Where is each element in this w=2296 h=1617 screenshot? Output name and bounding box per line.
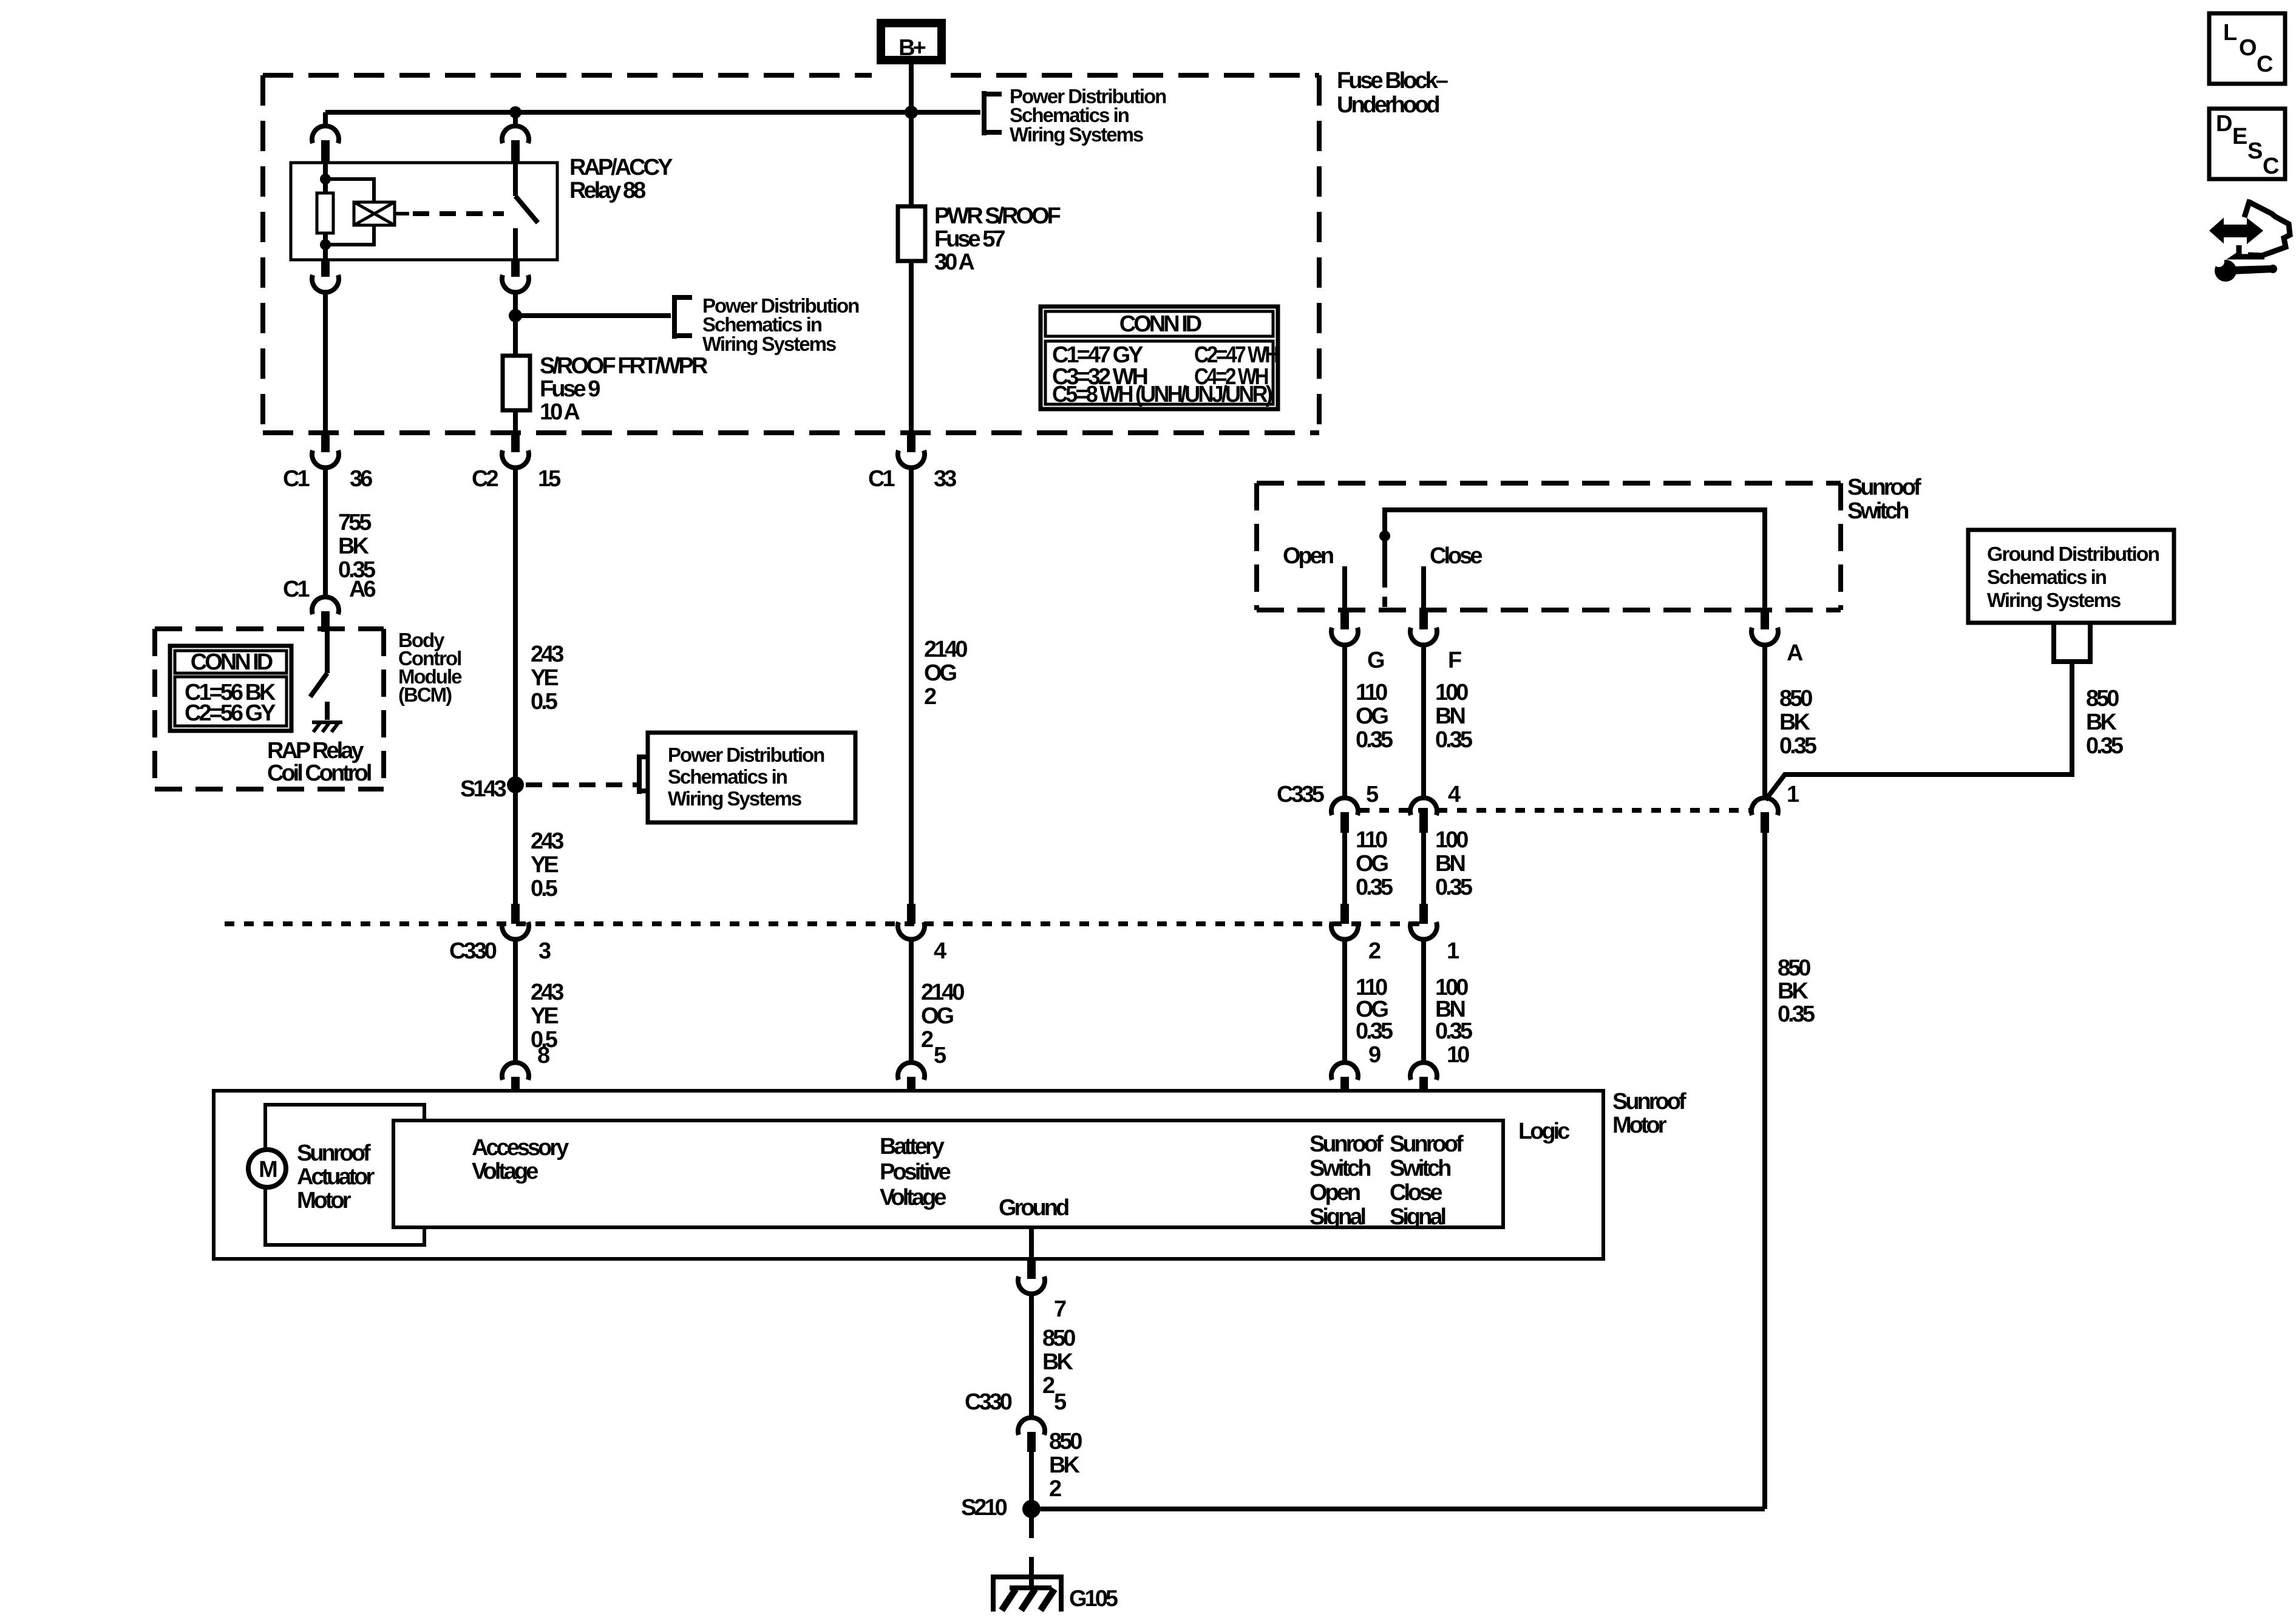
relay switch contact lower xyxy=(513,228,518,260)
wire S210 to ground xyxy=(1029,1509,1034,1538)
svg-text:9: 9 xyxy=(1368,1042,1381,1068)
svg-text:2: 2 xyxy=(1042,1373,1055,1398)
svg-text:YE: YE xyxy=(531,852,558,878)
svg-text:Ground Distribution: Ground Distribution xyxy=(1987,543,2159,565)
resistor relay coil suppression xyxy=(317,193,333,233)
svg-text:Schematics in: Schematics in xyxy=(668,765,787,788)
svg-text:Sunroof: Sunroof xyxy=(1847,475,1921,500)
svg-text:15: 15 xyxy=(538,466,561,492)
svg-text:C330: C330 xyxy=(449,938,497,964)
svg-text:2140: 2140 xyxy=(924,637,967,662)
icon wrench xyxy=(2213,255,2277,282)
svg-text:E: E xyxy=(2232,124,2247,149)
fuse PWR S/ROOF Fuse 57 xyxy=(898,206,925,261)
svg-text:2: 2 xyxy=(921,1027,933,1053)
connector C335 pin 4 xyxy=(1410,798,1437,904)
svg-text:Wiring Systems: Wiring Systems xyxy=(702,333,836,355)
ground distribution pigtail bracket xyxy=(2054,623,2090,662)
wire fuse57 to C1-33 xyxy=(909,261,914,433)
svg-text:243: 243 xyxy=(531,642,563,667)
svg-text:10 A: 10 A xyxy=(540,399,580,425)
connector pin 9 into motor xyxy=(1331,1062,1358,1120)
connector C330 pin 5 inline xyxy=(1018,1417,1045,1509)
svg-text:OG: OG xyxy=(921,1003,954,1029)
svg-text:O: O xyxy=(2239,35,2256,61)
svg-text:3: 3 xyxy=(538,938,551,964)
sunroof actuator motor sub-box xyxy=(265,1105,424,1245)
svg-text:850: 850 xyxy=(1049,1429,1082,1454)
svg-text:Switch: Switch xyxy=(1390,1156,1450,1181)
connector C330 pin 3 xyxy=(502,904,529,1062)
icon DESC box xyxy=(2209,109,2285,179)
svg-text:Switch: Switch xyxy=(1309,1156,1370,1181)
sunroof switch dashed box xyxy=(1257,483,1841,610)
fuse S/ROOF FRT/WPR Fuse 9 xyxy=(503,356,530,410)
svg-text:BK: BK xyxy=(338,534,369,559)
relay switch blade xyxy=(515,196,538,223)
wire S210 to right riser xyxy=(1041,1507,1765,1511)
svg-text:2: 2 xyxy=(924,684,936,710)
svg-text:Wiring Systems: Wiring Systems xyxy=(1987,589,2121,611)
node switch common xyxy=(1379,531,1390,541)
svg-text:0.35: 0.35 xyxy=(1435,1019,1473,1044)
svg-text:C1: C1 xyxy=(283,466,310,492)
svg-text:C: C xyxy=(2263,154,2279,179)
svg-text:F: F xyxy=(1448,648,1461,673)
svg-text:Open: Open xyxy=(1283,543,1333,569)
connector pin relay 85 bottom left xyxy=(312,259,339,433)
connector pin G at switch xyxy=(1331,609,1358,796)
svg-text:755: 755 xyxy=(338,510,372,535)
svg-text:Sunroof: Sunroof xyxy=(1612,1089,1686,1114)
svg-text:Voltage: Voltage xyxy=(880,1185,946,1210)
bracket to power distribution (mid) xyxy=(672,295,692,339)
svg-text:C: C xyxy=(2257,52,2273,77)
svg-text:0.35: 0.35 xyxy=(1356,727,1393,753)
svg-text:Actuator: Actuator xyxy=(297,1164,375,1190)
svg-text:100: 100 xyxy=(1435,827,1468,853)
relay RAP/ACCY Relay 88 box xyxy=(291,163,557,260)
svg-text:C2: C2 xyxy=(472,466,498,492)
svg-text:0.35: 0.35 xyxy=(1778,1002,1815,1027)
node junction at B+ xyxy=(905,106,918,119)
svg-text:BK: BK xyxy=(1779,710,1810,735)
switch close contact wire xyxy=(1421,566,1426,609)
svg-text:0.35: 0.35 xyxy=(2086,733,2124,759)
wire top horizontal bus xyxy=(325,110,980,115)
switch blade dashed tip xyxy=(1382,597,1387,607)
svg-text:0.35: 0.35 xyxy=(1779,733,1817,759)
connector C330 pin 1 xyxy=(1410,904,1437,1062)
wire ground inside motor xyxy=(1029,1227,1034,1259)
svg-text:C330: C330 xyxy=(965,1389,1012,1415)
svg-text:RAP/ACCY: RAP/ACCY xyxy=(569,155,673,180)
bracket to power distribution (S143) xyxy=(637,754,653,794)
svg-text:G105: G105 xyxy=(1069,1586,1118,1612)
B+ battery terminal xyxy=(877,19,946,64)
svg-text:0.5: 0.5 xyxy=(531,689,558,714)
svg-text:Schematics in: Schematics in xyxy=(1987,566,2107,588)
wire 755 BK from C1-36 xyxy=(323,469,328,595)
svg-text:C1: C1 xyxy=(868,466,895,492)
svg-text:RAP Relay: RAP Relay xyxy=(267,738,364,764)
svg-text:A6: A6 xyxy=(349,577,375,602)
svg-text:850: 850 xyxy=(2086,686,2119,711)
fuse block underhood dashed box xyxy=(263,75,1319,433)
svg-text:OG: OG xyxy=(1356,851,1388,876)
svg-text:Open: Open xyxy=(1309,1180,1360,1205)
connector pin A at switch xyxy=(1751,609,1778,796)
splice S143 xyxy=(507,776,524,793)
svg-text:S143: S143 xyxy=(460,776,506,802)
icon LOC box xyxy=(2209,13,2285,84)
wire A6 to switch inside BCM xyxy=(325,632,330,673)
connector pin F at switch xyxy=(1410,609,1437,796)
wire relay coil left leg xyxy=(323,163,328,193)
switch open contact wire xyxy=(1342,566,1347,609)
svg-text:Accessory: Accessory xyxy=(472,1135,569,1161)
svg-text:C2=56 GY: C2=56 GY xyxy=(185,700,276,726)
connector pin relay 87 bottom right xyxy=(502,259,529,356)
svg-text:30 A: 30 A xyxy=(934,249,974,275)
svg-text:2: 2 xyxy=(1049,1476,1061,1502)
svg-text:C1: C1 xyxy=(283,577,310,602)
svg-text:243: 243 xyxy=(531,829,563,854)
CONN ID table BCM xyxy=(170,646,291,731)
CONN ID table fuse block xyxy=(1041,307,1278,409)
svg-text:Coil Control: Coil Control xyxy=(267,761,371,786)
svg-text:D: D xyxy=(2216,111,2232,137)
svg-text:0.35: 0.35 xyxy=(1356,1019,1393,1044)
svg-text:Underhood: Underhood xyxy=(1337,92,1439,118)
connector C335 pin 1 xyxy=(1751,798,1778,1509)
svg-text:Ground: Ground xyxy=(999,1195,1068,1221)
svg-text:S210: S210 xyxy=(961,1495,1007,1520)
svg-text:Wiring Systems: Wiring Systems xyxy=(1010,123,1143,146)
svg-text:Sunroof: Sunroof xyxy=(1309,1131,1384,1157)
connector C335 dashed line xyxy=(1360,808,1751,813)
node coil bottom xyxy=(320,239,331,250)
svg-text:850: 850 xyxy=(1779,686,1812,711)
svg-text:0.5: 0.5 xyxy=(531,876,558,901)
relay switch contact upper xyxy=(513,163,518,196)
svg-text:0.35: 0.35 xyxy=(1435,727,1473,753)
connector C330 pin 4 xyxy=(898,904,925,1062)
ground contact stub inside BCM xyxy=(325,702,330,720)
wire junction to bracket (mid) xyxy=(515,313,671,318)
svg-text:2: 2 xyxy=(1368,938,1381,964)
svg-text:Motor: Motor xyxy=(1612,1113,1667,1138)
motor M circle xyxy=(248,1150,286,1187)
svg-text:PWR S/ROOF: PWR S/ROOF xyxy=(934,203,1061,229)
reference box Ground Distribution xyxy=(1968,530,2174,623)
connector pin relay 86 top left xyxy=(312,112,339,162)
svg-text:8: 8 xyxy=(537,1043,549,1068)
svg-text:BN: BN xyxy=(1435,851,1464,876)
svg-text:850: 850 xyxy=(1042,1326,1075,1351)
svg-text:C5=8 WH (UNH/UNJ/UNR): C5=8 WH (UNH/UNJ/UNR) xyxy=(1052,382,1272,407)
svg-text:CONN ID: CONN ID xyxy=(191,649,273,675)
wire 243 YE upper segment xyxy=(513,469,518,904)
svg-text:YE: YE xyxy=(531,1003,558,1029)
connector C335 pin 5 xyxy=(1331,798,1358,904)
connector C330 pin 2 xyxy=(1331,904,1358,1062)
svg-text:110: 110 xyxy=(1356,680,1387,705)
svg-text:Voltage: Voltage xyxy=(472,1159,538,1184)
svg-text:Positive: Positive xyxy=(880,1159,951,1185)
svg-text:2140: 2140 xyxy=(921,980,964,1005)
wire fuse9 to C2 xyxy=(513,410,518,433)
connector pin relay 30 top right xyxy=(502,112,529,162)
svg-text:Relay 88: Relay 88 xyxy=(569,178,645,203)
wire 2140 OG from C1-33 xyxy=(909,469,914,904)
svg-text:BK: BK xyxy=(1042,1349,1073,1375)
svg-text:S/ROOF FRT/WPR: S/ROOF FRT/WPR xyxy=(540,353,708,379)
svg-text:BN: BN xyxy=(1435,703,1464,729)
svg-text:110: 110 xyxy=(1356,827,1387,853)
wire switch common feed xyxy=(1385,510,1765,609)
svg-text:M: M xyxy=(259,1157,277,1182)
connector pin 5 into motor xyxy=(898,1062,925,1120)
svg-text:Sunroof: Sunroof xyxy=(297,1141,371,1166)
wire relay linkage dashed xyxy=(413,211,504,216)
icon car with double arrow xyxy=(2211,200,2290,257)
wire 850 BK from ground distribution xyxy=(1765,662,2072,800)
sunroof motor outer box xyxy=(214,1091,1603,1259)
svg-text:B+: B+ xyxy=(898,35,925,61)
svg-text:(BCM): (BCM) xyxy=(398,683,452,706)
wire coil branch loop xyxy=(325,179,374,202)
svg-text:7: 7 xyxy=(1054,1297,1066,1322)
svg-text:BK: BK xyxy=(1049,1453,1080,1478)
svg-text:YE: YE xyxy=(531,665,558,691)
svg-text:243: 243 xyxy=(531,980,563,1005)
reference box Power Distribution (S143) xyxy=(648,733,855,822)
svg-text:Wiring Systems: Wiring Systems xyxy=(668,787,801,810)
svg-text:BK: BK xyxy=(1778,978,1809,1004)
connector pin 7 below motor xyxy=(1018,1259,1045,1416)
bracket to power distribution (top) xyxy=(982,91,1002,135)
svg-text:850: 850 xyxy=(1778,955,1810,981)
svg-text:C335: C335 xyxy=(1277,782,1325,807)
svg-text:Close: Close xyxy=(1430,543,1482,569)
svg-text:Fuse 9: Fuse 9 xyxy=(540,376,600,402)
svg-text:S: S xyxy=(2247,138,2262,164)
switch RAP relay coil control blade xyxy=(310,673,327,697)
node junction below relay right xyxy=(509,309,522,322)
svg-text:0.35: 0.35 xyxy=(1435,875,1473,900)
svg-text:Fuse Block–: Fuse Block– xyxy=(1337,68,1448,93)
svg-text:Power Distribution: Power Distribution xyxy=(668,744,824,766)
svg-text:BK: BK xyxy=(2086,710,2117,735)
svg-text:Battery: Battery xyxy=(880,1134,945,1159)
svg-text:Close: Close xyxy=(1390,1180,1442,1205)
svg-text:100: 100 xyxy=(1435,680,1468,705)
logic box xyxy=(393,1120,1503,1227)
svg-text:10: 10 xyxy=(1447,1042,1469,1068)
svg-text:Motor: Motor xyxy=(297,1188,352,1213)
svg-text:CONN ID: CONN ID xyxy=(1119,311,1201,337)
ground symbol inside BCM xyxy=(312,722,342,732)
node junction at relay right pin xyxy=(509,106,521,118)
connector C330 dashed line xyxy=(225,921,1425,926)
ground G105 symbol xyxy=(993,1577,1061,1612)
connector C1 pin A6 into BCM xyxy=(312,597,339,632)
svg-text:OG: OG xyxy=(924,660,957,686)
svg-text:A: A xyxy=(1787,640,1803,666)
connector C1 pin 33 at fuse block xyxy=(898,433,925,468)
svg-text:Switch: Switch xyxy=(1847,498,1908,524)
svg-text:G: G xyxy=(1367,648,1384,673)
connector C1 pin 36 at fuse block xyxy=(312,433,339,468)
svg-text:36: 36 xyxy=(350,466,372,492)
splice S210 xyxy=(1022,1500,1041,1518)
wire S143 dashed link xyxy=(526,782,637,787)
svg-text:Sunroof: Sunroof xyxy=(1390,1131,1464,1157)
connector C2 pin 15 at fuse block xyxy=(502,433,529,468)
svg-text:0.35: 0.35 xyxy=(1356,875,1393,900)
svg-text:Logic: Logic xyxy=(1518,1119,1570,1144)
svg-text:33: 33 xyxy=(934,466,956,492)
connector pin 8 into motor xyxy=(502,1062,529,1120)
svg-text:OG: OG xyxy=(1356,703,1388,729)
svg-text:Signal: Signal xyxy=(1390,1204,1445,1230)
connector pin 10 into motor xyxy=(1410,1062,1437,1120)
BCM body control module dashed box xyxy=(155,629,384,789)
svg-text:Fuse 57: Fuse 57 xyxy=(934,226,1005,252)
relay coil box with X xyxy=(354,202,409,225)
svg-text:Signal: Signal xyxy=(1309,1204,1365,1230)
wire B+ down to bus xyxy=(909,64,914,206)
node coil top xyxy=(320,174,331,185)
